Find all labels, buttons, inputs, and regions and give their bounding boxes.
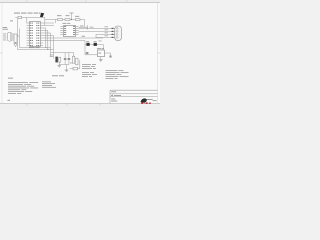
wire routing vertical left outer bbox=[17, 19, 19, 50]
frame tick bottom A bbox=[26, 104, 28, 106]
USB connector J1 body bbox=[7, 32, 12, 41]
wire VCC pin drop bbox=[26, 18, 28, 24]
capacitor C3 stems bbox=[64, 53, 66, 58]
net label CON1 line1 bbox=[3, 26, 8, 29]
diode D2 bbox=[94, 43, 97, 46]
wire R4 to VCC stem bbox=[70, 19, 76, 21]
pin U1 left 5 bbox=[27, 32, 30, 34]
connector X1 pad 1 bbox=[112, 28, 114, 29]
wire down x45.8 bbox=[43, 27, 46, 29]
pin name U1 right 7 bbox=[36, 37, 37, 40]
pin U1 right 1 bbox=[40, 22, 43, 24]
filter component L1 bbox=[14, 34, 17, 42]
resistor R6 vertical bbox=[76, 58, 78, 65]
sparkfun red text 1 bbox=[141, 102, 143, 104]
pin name U2 left 2 bbox=[64, 27, 66, 30]
wire drop to IC2 net bbox=[84, 20, 86, 28]
frame tick top C bbox=[126, 0, 128, 2]
pin name U1 left 6 bbox=[30, 34, 31, 37]
pin U1 left 7 bbox=[27, 37, 30, 39]
pin U2 right 2 bbox=[76, 27, 79, 29]
label U2 bbox=[63, 22, 67, 25]
output cap stub bbox=[110, 53, 112, 55]
pin U2 left 2 bbox=[60, 27, 63, 29]
wire net rise to resistor row bbox=[55, 20, 57, 24]
wire routing vertical left inner bbox=[19, 29, 21, 48]
label D1 bbox=[86, 40, 89, 43]
pin U1 right 10 bbox=[40, 45, 43, 47]
wire vertical x85 to cap row bbox=[84, 44, 86, 54]
title block left edge bbox=[109, 90, 111, 103]
wire Y2 right bbox=[78, 68, 80, 70]
capacitor C5 plates bbox=[86, 51, 89, 54]
pin name U2 left 5 bbox=[64, 33, 66, 36]
wire R7 right bbox=[80, 19, 85, 21]
ground bars caps bbox=[65, 69, 69, 71]
label VCC mid bbox=[82, 35, 86, 38]
wire vertical right of IC top bbox=[44, 18, 46, 26]
wire X1 net 2 bbox=[79, 30, 115, 32]
pin label J1-1 bbox=[3, 33, 6, 36]
pin name U1 right 10 bbox=[36, 44, 37, 47]
pin U1 right 7 bbox=[40, 37, 43, 39]
ground stem crystal bbox=[58, 62, 60, 65]
pin stub J1-4 bbox=[12, 39, 14, 41]
wire down x47.8 bbox=[43, 30, 48, 32]
pin label J1-3 bbox=[3, 37, 6, 40]
connector X1 pin label 4 bbox=[105, 35, 109, 38]
pin stub J1-1 bbox=[12, 33, 14, 35]
junction dot B bbox=[47, 49, 48, 50]
capacitor C5 stem bbox=[86, 54, 88, 55]
crystal plate right bbox=[59, 57, 61, 62]
wire vertical x85 down bbox=[84, 41, 86, 45]
pin U1 left 10 bbox=[27, 45, 30, 47]
resistor R7 bbox=[76, 19, 81, 21]
pin U1 right 8 bbox=[40, 40, 43, 42]
notes heading bbox=[8, 77, 13, 80]
junction dot bbox=[71, 19, 72, 20]
frame top border bbox=[0, 1, 160, 3]
schematic page background bbox=[0, 0, 160, 110]
capacitor C4 stems bbox=[68, 53, 70, 58]
fuse F1 bbox=[18, 16, 22, 18]
label D2 bbox=[94, 40, 97, 43]
pin name U1 left 5 bbox=[30, 32, 31, 35]
VCC stem bbox=[70, 13, 72, 20]
pin name U1 left 3 bbox=[30, 27, 31, 30]
pin U2 left 1 bbox=[60, 25, 63, 27]
connector X1 pin circle 3 bbox=[116, 34, 118, 36]
wire into Y2 left bbox=[70, 68, 74, 70]
wire fuse left to vertical bbox=[15, 17, 18, 19]
wire crystal top rail bbox=[51, 52, 74, 54]
pin U1 left 6 bbox=[27, 35, 30, 37]
wire X1 net 4 bbox=[96, 36, 115, 38]
crystal Q1 body (dark) bbox=[55, 57, 58, 63]
ground triangle bbox=[14, 44, 18, 47]
sparkfun flame logo bbox=[141, 98, 147, 102]
page number label bottom-left bbox=[8, 100, 11, 101]
wire fuse to flag bbox=[22, 17, 45, 19]
pin U1 right 9 bbox=[40, 42, 43, 44]
net label text row (top) bbox=[14, 12, 20, 15]
title text row1 bbox=[111, 90, 116, 93]
pin name U1 left 7 bbox=[30, 37, 31, 40]
pin name U1 right 2 bbox=[36, 24, 37, 27]
pin U1 right 2 bbox=[40, 25, 43, 27]
wire down x53.5 to crystal bbox=[43, 35, 53, 37]
pin name U1 left 8 bbox=[30, 39, 31, 42]
title block small vertical bbox=[112, 94, 114, 97]
connector X1 pin label 3 bbox=[105, 32, 109, 35]
resistor R4 bbox=[65, 19, 70, 21]
wire U3 output bbox=[105, 52, 111, 54]
pin U1 left 9 bbox=[27, 42, 30, 44]
wire vertical right of R6 bbox=[79, 60, 81, 69]
label crystal left line1 bbox=[50, 54, 54, 57]
sparkfun red text 3 bbox=[149, 103, 151, 104]
bus wire y40.5 bbox=[43, 40, 85, 42]
wire X1 net 3 bbox=[96, 33, 115, 35]
pin name U1 left 1 bbox=[30, 22, 31, 25]
pin U2 right 3 bbox=[76, 29, 79, 31]
pin U2 left 5 bbox=[60, 33, 63, 35]
pin stub J1-3 bbox=[12, 37, 14, 39]
label crystal left line2 bbox=[50, 55, 53, 58]
sparkfun gray text bbox=[144, 103, 146, 104]
pin U2 left 4 bbox=[60, 31, 63, 33]
pin U1 left 3 bbox=[27, 27, 30, 29]
resistor R5 vertical bbox=[72, 56, 74, 63]
wire routing bottom inner bbox=[20, 47, 51, 49]
USB connector inner line bbox=[9, 33, 11, 40]
pin name U1 right 8 bbox=[36, 39, 37, 42]
note text right column bbox=[106, 69, 118, 72]
frame tick bottom C bbox=[99, 104, 101, 106]
connector X1 pad 3 bbox=[112, 34, 114, 35]
wire diode row bbox=[85, 43, 103, 45]
frame left border bbox=[1, 2, 3, 103]
pin name U2 right 4 bbox=[73, 31, 75, 34]
ground bars U3 bbox=[99, 59, 103, 61]
frame tick right bbox=[158, 52, 160, 54]
wire U1 pin row top1 bbox=[43, 22, 54, 24]
label R7 value bbox=[75, 15, 79, 18]
title text row2a bbox=[111, 94, 113, 97]
sparkfun red text 2 bbox=[146, 102, 148, 104]
pin name U2 left 3 bbox=[64, 29, 66, 32]
capacitor C4 plates bbox=[68, 57, 71, 60]
pin name U1 right 1 bbox=[36, 22, 37, 25]
wire routing bottom outer bbox=[18, 49, 54, 51]
pin name U2 left 4 bbox=[64, 31, 66, 34]
connector X1 pin circle 2 bbox=[116, 31, 118, 33]
frame tick left bbox=[0, 52, 2, 54]
pin label J1-4 bbox=[3, 39, 6, 42]
connector X1 body bbox=[115, 26, 122, 41]
pin name U2 left 1 bbox=[64, 25, 66, 28]
capacitor C3 plates bbox=[64, 57, 67, 60]
diode D1 bbox=[86, 43, 89, 46]
connector X1 pad 4 bbox=[112, 37, 114, 38]
connector X1 pin label 1 bbox=[105, 26, 109, 29]
label F1 bbox=[10, 20, 13, 23]
frame tick bottom B bbox=[66, 104, 68, 106]
pin U1 right 4 bbox=[40, 30, 43, 32]
pin name U1 right 4 bbox=[36, 29, 37, 32]
junction dot A bbox=[45, 47, 46, 48]
ground stem U3 bbox=[100, 57, 102, 60]
wire to resistor R3 bbox=[45, 19, 58, 21]
title block divider 1 bbox=[110, 93, 158, 95]
pin U1 left 2 bbox=[27, 25, 30, 27]
pin name U1 left 10 bbox=[30, 44, 31, 47]
ground bars crystal bbox=[57, 65, 61, 67]
VCC tee bar (vertical) bbox=[86, 25, 88, 29]
resistor R5 stem bbox=[73, 53, 75, 57]
pin U1 left 4 bbox=[27, 30, 30, 32]
wire from power flag down bbox=[41, 16, 43, 19]
pin name U1 right 9 bbox=[36, 42, 37, 45]
net label CON1 line2 bbox=[3, 28, 9, 31]
label near caps bbox=[70, 62, 73, 65]
frame bottom border bbox=[0, 102, 160, 104]
pin name U1 right 5 bbox=[36, 32, 37, 35]
pin U1 left 1 bbox=[27, 22, 30, 24]
wire cap row to regulator bbox=[85, 54, 98, 56]
IC U1 body bbox=[30, 22, 41, 47]
pin U1 left 8 bbox=[27, 40, 30, 42]
pin name U2 right 2 bbox=[73, 27, 75, 30]
connector X1 pin circle 4 bbox=[116, 37, 118, 39]
frame tick top A bbox=[26, 0, 28, 2]
wire caps bottom rail bbox=[59, 64, 69, 66]
frame right border bbox=[157, 2, 159, 103]
resistor R3 bbox=[58, 19, 63, 21]
wire R3 to R4 bbox=[63, 19, 66, 21]
pin name U1 left 9 bbox=[30, 42, 31, 45]
connector X1 pad 2 bbox=[112, 31, 114, 32]
title text row3 bbox=[111, 98, 115, 101]
bus wire y38 bbox=[43, 37, 103, 39]
pin name U2 right 3 bbox=[73, 29, 75, 32]
label U3 bbox=[97, 47, 101, 50]
sparkfun flame tail bbox=[147, 98, 153, 101]
connector X1 pin circle 1 bbox=[116, 28, 118, 30]
pin name U1 right 6 bbox=[36, 34, 37, 37]
label R4 value bbox=[66, 14, 70, 17]
pin U1 right 5 bbox=[40, 32, 43, 34]
pin U2 left 3 bbox=[60, 29, 63, 31]
IC U2 body bbox=[64, 26, 76, 37]
connector X1 pin label 2 bbox=[105, 29, 109, 32]
title text row4 bbox=[111, 100, 117, 103]
wire U2 to VCC tee bbox=[79, 26, 88, 28]
top margin strip bbox=[0, 0, 160, 2]
pin stub J1-2 bbox=[12, 35, 14, 37]
component Y2 bottom box bbox=[73, 67, 78, 70]
wire down x50.5 to crystal bbox=[43, 32, 50, 34]
tiny text right of logo bbox=[153, 99, 157, 102]
wire L1 to routing vertical bbox=[17, 35, 20, 37]
bottom margin strip bbox=[0, 104, 160, 110]
pin U1 right 6 bbox=[40, 35, 43, 37]
wire into regulator top bbox=[102, 44, 104, 50]
ground stem under L1 bbox=[15, 42, 17, 43]
note text mid column bbox=[82, 63, 91, 66]
label R3 value bbox=[57, 14, 62, 17]
regulator U3 body bbox=[98, 50, 105, 57]
label right of tee bbox=[90, 26, 94, 29]
notes column two bbox=[42, 81, 51, 84]
pin U1 right 3 bbox=[40, 27, 43, 29]
pin name U1 left 4 bbox=[30, 29, 31, 32]
wire vertical feed x96 bbox=[95, 34, 97, 38]
pin U2 right 1 bbox=[76, 25, 79, 27]
notes paragraph bbox=[8, 81, 28, 84]
VCC T-bar bbox=[69, 12, 73, 14]
label U1 value below bbox=[29, 46, 35, 49]
pin name U3 bbox=[98, 52, 101, 55]
wire X1 net 1 bbox=[79, 27, 115, 29]
output cap plates bbox=[109, 55, 111, 58]
pin name U1 left 2 bbox=[30, 24, 31, 27]
title block divider 2 bbox=[110, 96, 158, 98]
label crystal bottom bbox=[52, 74, 58, 77]
label after D2 bbox=[99, 40, 102, 43]
pin name U2 right 1 bbox=[73, 25, 75, 28]
title text row2b bbox=[114, 94, 121, 97]
ground stem caps bbox=[66, 65, 68, 70]
frame tick top B bbox=[85, 0, 87, 2]
pin label J1-2 bbox=[3, 35, 6, 38]
title block top edge bbox=[110, 89, 158, 91]
VCC label near U2 bbox=[80, 25, 84, 28]
pin U2 right 4 bbox=[76, 31, 79, 33]
pin U2 right 5 bbox=[76, 33, 79, 35]
pin name U1 right 3 bbox=[36, 27, 37, 30]
pin name U2 right 5 bbox=[73, 33, 75, 36]
wire U1 pin row top2 bbox=[43, 25, 54, 27]
power flag VBUS (filled arrow) bbox=[40, 13, 44, 18]
